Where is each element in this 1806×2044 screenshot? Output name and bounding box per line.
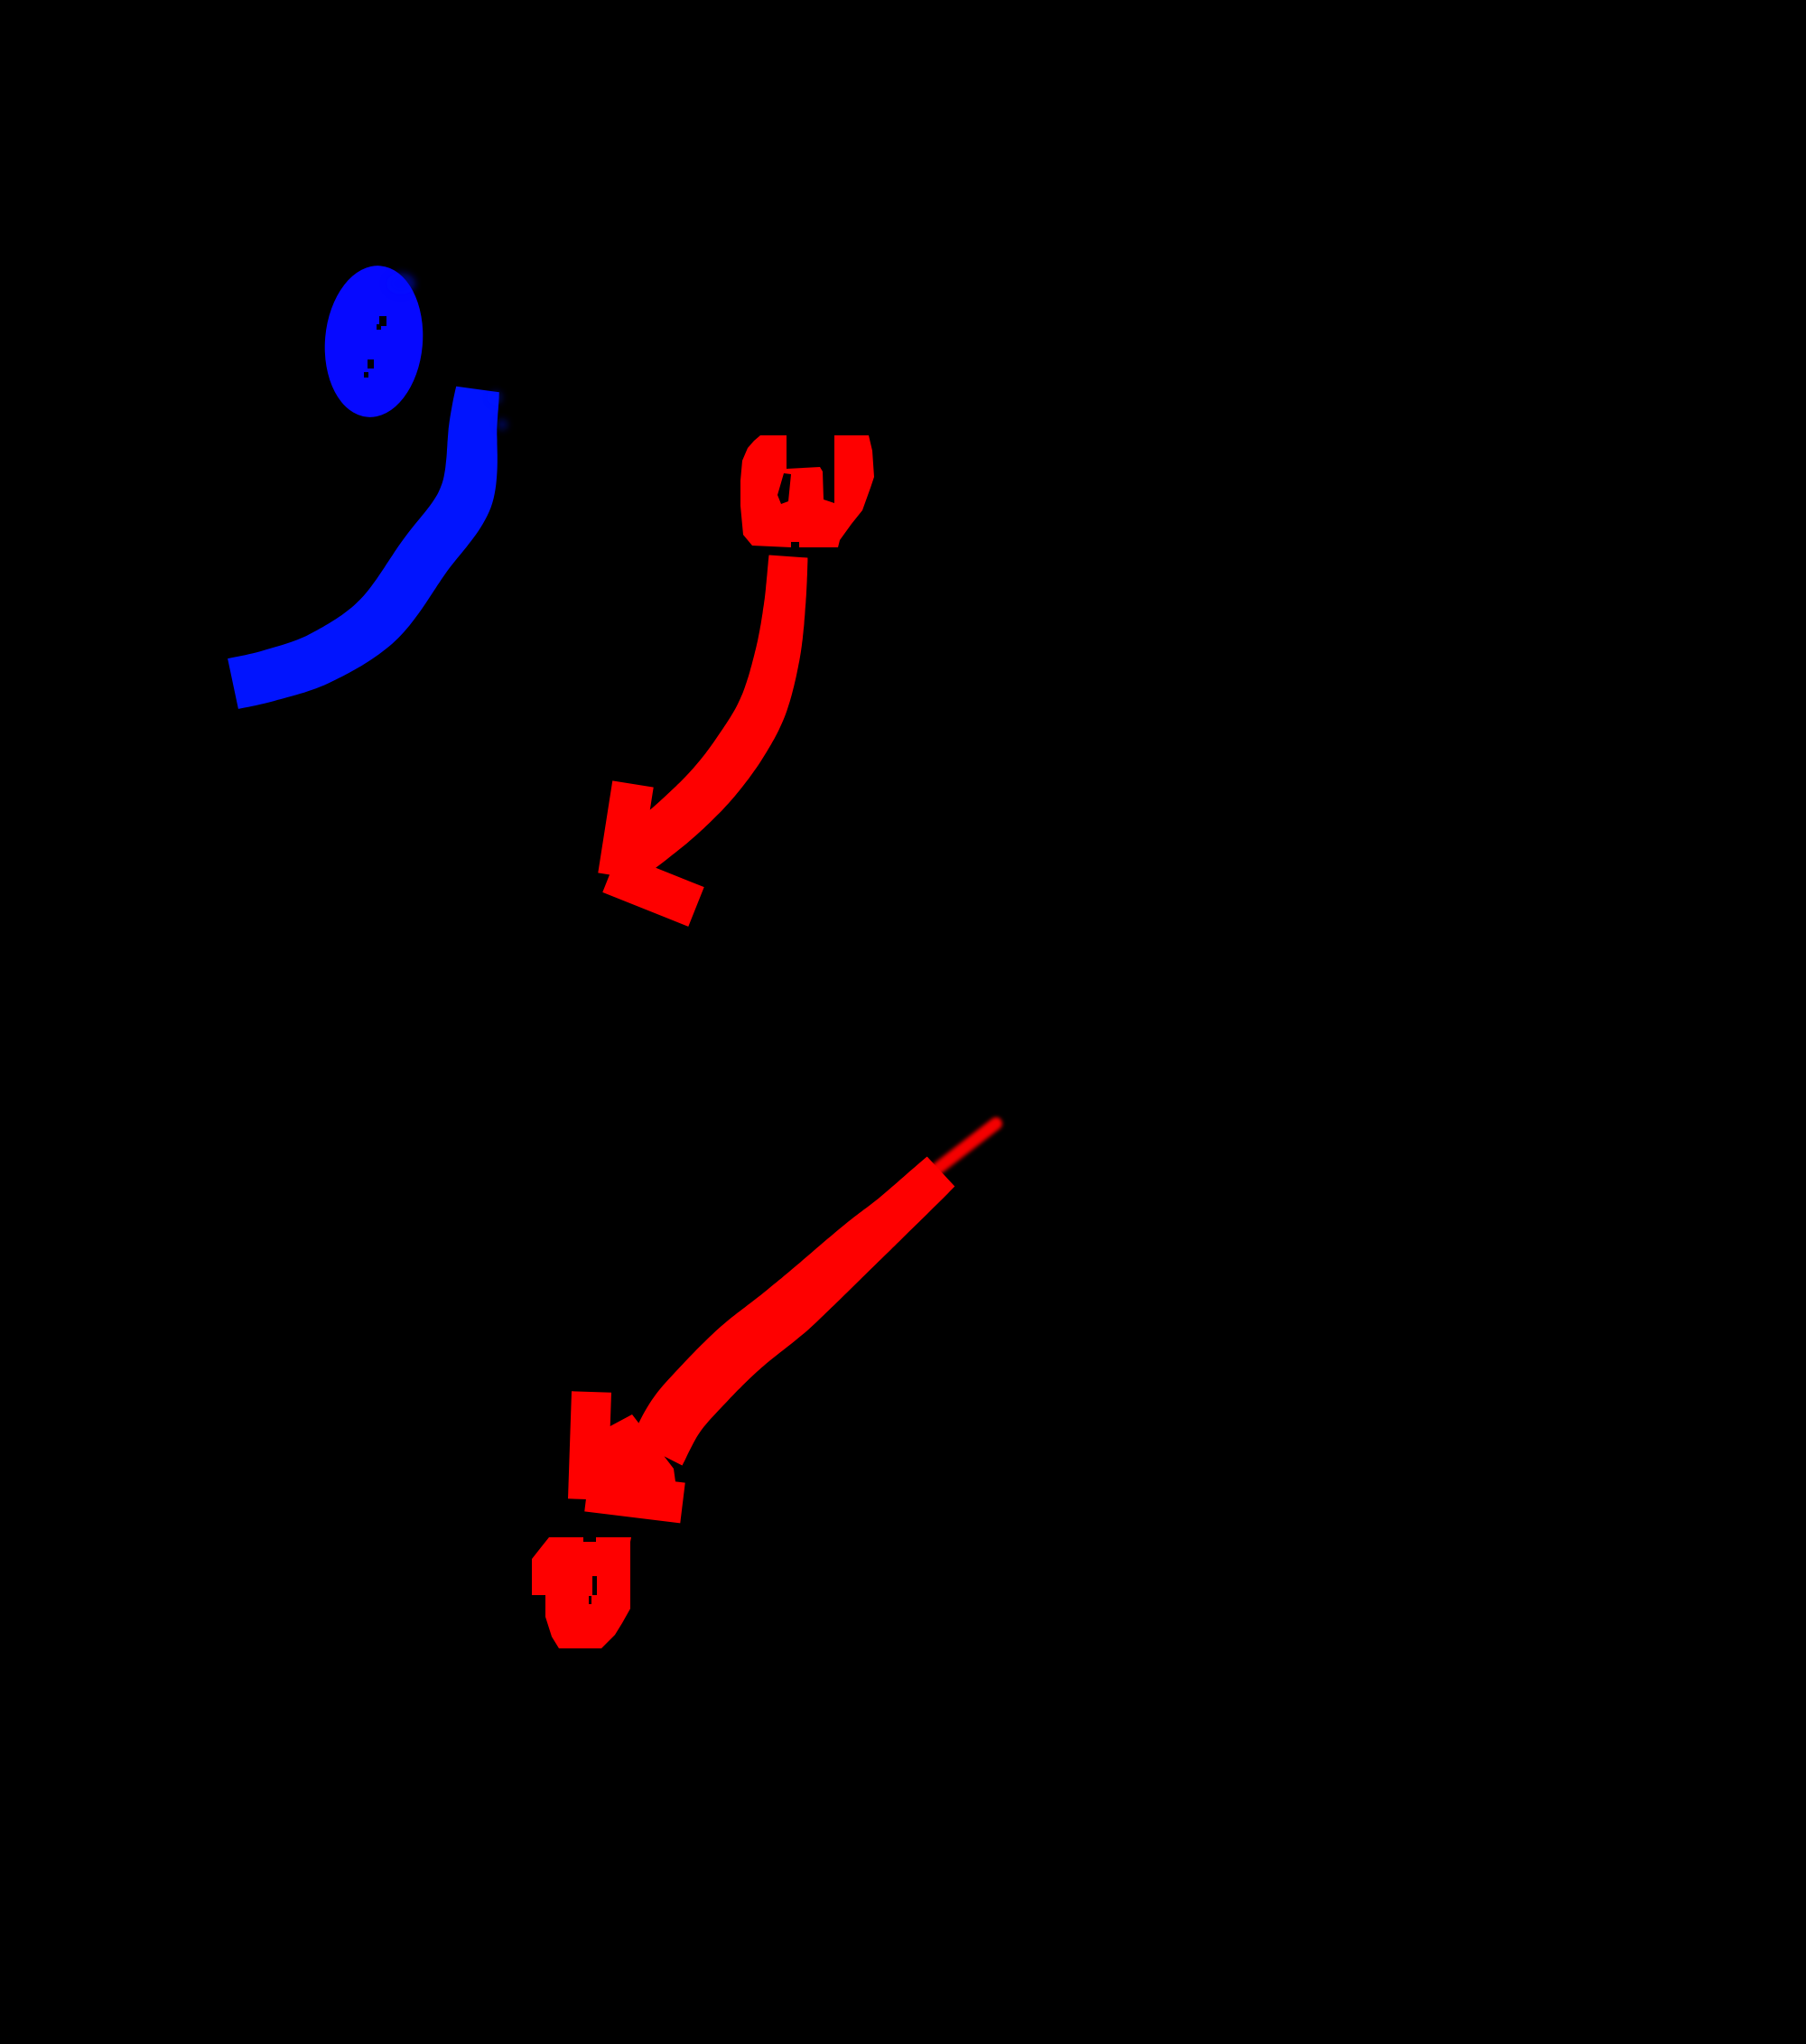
blue wisp specks near arc top — [489, 391, 507, 430]
red curved arrow head: lower barb — [610, 873, 696, 907]
blue arc (curved swoosh) — [228, 387, 499, 709]
red straight arrow: thick shaft (widens toward the tip) — [631, 1157, 955, 1466]
blue blob (filled oval annotation) — [319, 262, 429, 422]
red v label (velocity) — [532, 1537, 631, 1648]
red curved arrow shaft (from omega tail, bending down-left) — [618, 555, 808, 875]
red curved arrow head: upper barb — [619, 784, 633, 876]
red straight arrow head: upper barb — [588, 1392, 591, 1499]
red straight arrow head: fill between shaft and barbs — [607, 1414, 677, 1495]
red straight arrow head: lower barb — [587, 1491, 683, 1503]
red straight arrow: thin tail — [937, 1124, 996, 1169]
red omega (angular velocity label) — [740, 435, 874, 547]
black specks inside blue blob — [364, 316, 386, 378]
